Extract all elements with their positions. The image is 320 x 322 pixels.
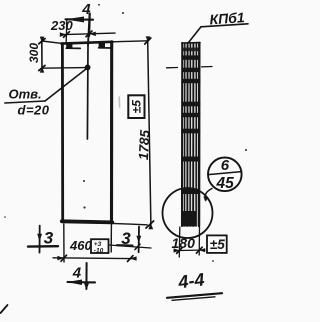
svg-text:КПб1: КПб1 xyxy=(209,9,245,27)
svg-text:6: 6 xyxy=(221,157,230,174)
svg-text:±5: ±5 xyxy=(130,100,144,114)
svg-text:460: 460 xyxy=(69,238,92,253)
svg-text:d=20: d=20 xyxy=(18,103,50,118)
svg-text:1785: 1785 xyxy=(136,129,153,160)
svg-text:4: 4 xyxy=(72,265,82,282)
svg-text:230: 230 xyxy=(50,18,73,33)
svg-text:45: 45 xyxy=(216,175,235,192)
svg-text:-10: -10 xyxy=(94,247,104,254)
svg-text:3: 3 xyxy=(121,229,131,248)
svg-text:180: 180 xyxy=(172,235,196,251)
svg-text:4: 4 xyxy=(81,1,91,18)
svg-text:4-4: 4-4 xyxy=(176,269,205,292)
svg-text:300: 300 xyxy=(27,43,41,63)
svg-text:±5: ±5 xyxy=(210,237,225,252)
svg-text:3: 3 xyxy=(44,228,54,247)
svg-text:Отв.: Отв. xyxy=(9,87,42,102)
